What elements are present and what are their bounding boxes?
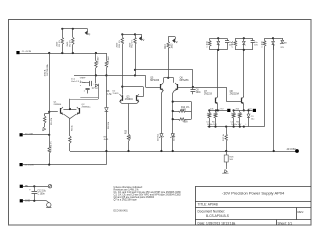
title block: [195, 187, 197, 226]
wire mid rail: [135, 69, 193, 71]
power arrow 2: [141, 34, 143, 37]
feedback wire: [173, 101, 192, 103]
diode D1 TL431: [105, 108, 109, 111]
svg-text:MPSA56: MPSA56: [150, 79, 160, 82]
emitter resistor R10: [128, 107, 130, 129]
svg-text:MPSA56: MPSA56: [180, 79, 190, 82]
wire between bases: [63, 109, 76, 111]
capacitor C12: [34, 186, 36, 191]
filter cap2: [227, 38, 229, 41]
svg-text:2k00: 2k00: [117, 42, 119, 48]
svg-text:C 100n: C 100n: [207, 41, 209, 48]
transistor Q1: [60, 108, 62, 114]
svg-text:J3 -DCIN: J3 -DCIN: [25, 165, 34, 167]
zener D8: [282, 38, 283, 40]
svg-text:2N3904a: 2N3904a: [82, 106, 92, 108]
capacitor C9 series: [89, 81, 91, 86]
svg-text:R3 4k7: R3 4k7: [98, 56, 100, 64]
filter rail top: [235, 38, 252, 40]
feedback resistor R15: [173, 119, 179, 121]
svg-text:VREF: VREF: [80, 77, 86, 79]
svg-text:R1 1%: R1 1%: [59, 40, 61, 47]
port J5: [20, 199, 23, 202]
port J1 +DCIN: [16, 51, 19, 54]
wire base rail: [178, 87, 226, 89]
filter cap2: [252, 38, 254, 41]
wire diff emitters top: [164, 77, 174, 79]
wire sense rail: [207, 126, 264, 128]
svg-text:Q7 is a 2N2219A type: Q7 is a 2N2219A type: [114, 198, 138, 201]
filter group2 bottom: [235, 49, 252, 51]
power flag 1: [48, 185, 51, 188]
zener D4: [172, 95, 174, 134]
border frame: [9, 20, 312, 226]
filter diode: [243, 38, 245, 41]
adj resistor R17: [226, 127, 228, 131]
svg-text:C 100n: C 100n: [261, 41, 263, 48]
wire col 264: [264, 53, 266, 127]
wire top rail 2: [122, 34, 135, 36]
svg-text:R13: R13: [165, 44, 167, 49]
svg-text:R6 1k: R6 1k: [72, 124, 74, 131]
svg-text:Sheet: 1/1: Sheet: 1/1: [278, 221, 293, 225]
resistor R3: [95, 53, 97, 61]
wire col r3 down: [95, 75, 97, 83]
svg-text:2k00: 2k00: [129, 42, 131, 48]
wire riser: [106, 151, 108, 165]
svg-text:R9 10k: R9 10k: [108, 121, 110, 129]
svg-text:R4 6k8: R4 6k8: [108, 56, 110, 64]
wire col q7 stem: [217, 50, 219, 97]
trimmer arrow: [226, 166, 228, 169]
svg-text:R12 1%: R12 1%: [132, 40, 134, 48]
emitter bracket: [120, 101, 122, 103]
diode D2: [95, 84, 98, 87]
wire base corner: [226, 87, 228, 101]
svg-text:R10: R10: [126, 129, 128, 134]
filter cap: [235, 38, 237, 40]
wire up to rail: [69, 99, 71, 109]
transistor Q7: [215, 98, 217, 104]
emitter resistor R6: [63, 114, 70, 119]
resistor R7: [49, 135, 51, 146]
wire +unreg drop: [49, 53, 51, 112]
svg-text:C 100n: C 100n: [232, 41, 234, 48]
wire q1 base down: [49, 112, 51, 135]
transistor Q5: [160, 84, 162, 90]
sense cluster B: [233, 109, 235, 111]
capacitor C7: [86, 88, 90, 90]
wire top rail R1 R2: [62, 28, 87, 30]
svg-text:1k02: 1k02: [172, 43, 174, 49]
svg-text:4k99: 4k99: [104, 139, 109, 141]
svg-text:2N3904: 2N3904: [125, 99, 134, 101]
wire -dcin bus: [23, 164, 107, 166]
svg-text:R7 10k 1%: R7 10k 1%: [51, 141, 53, 152]
wire +DCIN bus: [20, 53, 107, 55]
svg-text:4k99: 4k99: [183, 121, 189, 123]
svg-text:10u: 10u: [251, 118, 254, 120]
svg-text:D3 6V2: D3 6V2: [158, 133, 160, 141]
svg-text:Document Number:: Document Number:: [198, 210, 226, 214]
wire col c8: [192, 70, 194, 90]
wire q4 base loop: [122, 86, 143, 88]
svg-text:TL431: TL431: [112, 93, 119, 95]
resistor R1: [62, 29, 64, 38]
svg-text:16V: 16V: [254, 45, 258, 47]
svg-text:R2 1%: R2 1%: [70, 40, 72, 47]
wire j5: [23, 200, 47, 202]
svg-text:2k00: 2k00: [67, 41, 69, 47]
svg-text:D4 6V2: D4 6V2: [173, 133, 175, 141]
wire below: [106, 111, 108, 151]
wire to com bus: [69, 147, 71, 151]
transistor Q8: [241, 98, 243, 104]
svg-text:AGND: AGND: [222, 172, 229, 175]
wire col down: [122, 47, 124, 95]
filter diode: [273, 38, 275, 41]
port +VO: [227, 109, 230, 112]
svg-text:C7 1n: C7 1n: [92, 88, 99, 90]
wire d2 down: [98, 87, 100, 99]
wire emitter to +VO: [217, 104, 219, 110]
svg-text:2N3904: 2N3904: [54, 104, 62, 106]
wire j4: [23, 186, 48, 188]
svg-text:100mA: 100mA: [44, 69, 47, 76]
zener D3: [161, 95, 163, 134]
svg-text:Date: 1/28/2013 18:13:18a: Date: 1/28/2013 18:13:18a: [198, 221, 236, 225]
svg-text:1%: 1%: [186, 107, 189, 109]
resistor R2: [72, 29, 74, 38]
wire center col: [106, 75, 108, 107]
svg-text:2k00: 2k00: [57, 41, 59, 47]
resistor R11: [122, 34, 124, 37]
sense cluster C: [248, 110, 250, 114]
wire r12 down: [135, 47, 137, 75]
transistor Q4: [136, 95, 138, 101]
wire emitter to -VO: [243, 104, 245, 110]
svg-text:C 100n: C 100n: [37, 194, 45, 196]
filter rail top: [210, 38, 227, 40]
collector wires: [161, 90, 163, 93]
power arrow +UNREG: [87, 29, 89, 32]
wire opamp out: [82, 82, 89, 84]
earth ground: [47, 201, 49, 203]
wire vref rail: [74, 75, 146, 77]
filter cap: [264, 38, 266, 40]
wire col q8: [243, 50, 245, 97]
svg-text:R11 1%: R11 1%: [119, 40, 121, 48]
svg-text:R5 47k: R5 47k: [51, 117, 53, 125]
sense cluster A: [208, 109, 210, 111]
svg-text:REV:: REV:: [298, 210, 305, 214]
resistor R13: [168, 37, 170, 41]
ground flag: [44, 126, 46, 128]
svg-text:2N2219: 2N2219: [204, 93, 213, 95]
svg-text:J1 +DCIN: J1 +DCIN: [22, 51, 32, 53]
capacitor C8: [191, 89, 196, 91]
transistor Q6: [177, 84, 179, 90]
svg-text:B-CS-AP04-B-S: B-CS-AP04-B-S: [206, 214, 229, 218]
svg-text:100n: 100n: [196, 92, 202, 94]
svg-text:R17 1k: R17 1k: [223, 133, 225, 141]
transistor Q2: [79, 108, 81, 114]
filter group1 bottom: [210, 49, 227, 51]
group3 down cols: [264, 46, 266, 53]
transistor Q3: [122, 95, 124, 101]
svg-text:4k99: 4k99: [181, 110, 187, 112]
svg-text:2N2219A: 2N2219A: [230, 92, 240, 95]
resistor R5 bias: [45, 113, 50, 115]
svg-text:J4 COM: J4 COM: [286, 148, 295, 151]
resistor R12: [135, 34, 137, 37]
filter cap: [209, 38, 211, 40]
adj resistor R18: [224, 155, 228, 162]
svg-text:Vref+2.5: Vref+2.5: [71, 81, 80, 83]
port J2 COM: [20, 133, 23, 136]
feedback resistor R14: [173, 111, 179, 113]
svg-text:+VO: +VO: [219, 109, 224, 111]
filter rail top: [265, 38, 282, 40]
port J4: [20, 185, 23, 188]
resistor R4: [106, 53, 108, 61]
svg-text:ECO-06-0401: ECO-06-0401: [114, 210, 129, 212]
wire vref corner: [145, 75, 147, 87]
wire com: [23, 134, 50, 136]
wire col diff: [168, 54, 170, 78]
svg-text:C12 10u: C12 10u: [37, 191, 46, 193]
port J3 -DCIN: [20, 163, 23, 166]
svg-text:GND: GND: [25, 201, 30, 203]
filter diode: [218, 38, 220, 41]
svg-text:-10V Precision Power Supply AP: -10V Precision Power Supply AP04: [222, 190, 285, 195]
svg-text:20V: 20V: [280, 47, 284, 49]
node base: [48, 111, 50, 113]
port -VO: [253, 109, 256, 112]
com output dot: [295, 149, 299, 153]
svg-text:TITLE: AP04B: TITLE: AP04B: [198, 203, 218, 207]
wire col 274: [273, 53, 275, 151]
